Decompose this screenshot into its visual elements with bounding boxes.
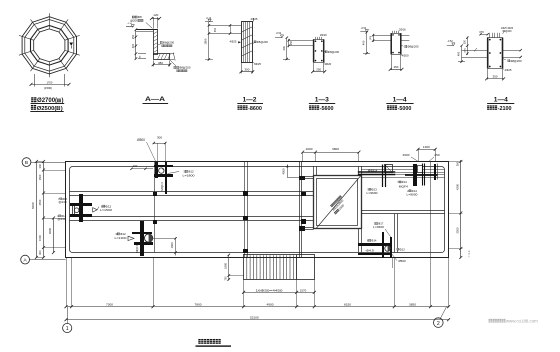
chamber outer square — [314, 176, 362, 229]
octagonal shaft detail: outer ring inner face — [25, 20, 74, 72]
section 1-3 column body — [314, 40, 324, 63]
svg-text:-0.10: -0.10 — [206, 18, 212, 20]
section 1-3 top stirrup ticks — [315, 37, 317, 40]
svg-text:2Φ16: 2Φ16 — [320, 33, 327, 37]
svg-text:Ø500: Ø500 — [137, 138, 145, 142]
svg-text:1—3: 1—3 — [315, 97, 330, 104]
K3 opening box on top wall — [385, 165, 393, 173]
svg-text:7800: 7800 — [195, 302, 202, 306]
section J-4 side tie lines — [462, 50, 488, 52]
right zone grid line — [430, 162, 432, 258]
octagonal shaft radial web lines — [19, 13, 80, 77]
section J-4 left elevation marker — [447, 45, 454, 47]
partition P3 double vertical chamber zone left wall — [299, 162, 301, 258]
svg-text:350: 350 — [493, 74, 498, 78]
svg-text:1—4: 1—4 — [494, 97, 509, 104]
svg-text:250: 250 — [434, 153, 439, 157]
thin beam lines to right wall — [361, 169, 445, 171]
partition P2 double vertical — [244, 162, 246, 258]
shaft section marker triangle — [70, 43, 74, 47]
axis circle B — [22, 158, 31, 167]
svg-text:-5000: -5000 — [398, 106, 412, 112]
section 1-4 left elevation marker — [360, 31, 367, 33]
svg-text:Φ14: Φ14 — [372, 169, 378, 173]
circular opening bottom right — [385, 246, 391, 252]
section 1-2 wall column body — [242, 22, 253, 63]
heavy beam segment under top-right bar cluster — [405, 174, 438, 176]
svg-text:6600: 6600 — [31, 202, 35, 209]
beam vertical bar bottom right left — [382, 232, 384, 258]
beam middle-left horizontal bars — [70, 203, 92, 206]
beam vertical bar bottom right right — [390, 237, 392, 258]
chamber inner square — [317, 179, 358, 226]
stairs bottom dim 16@280=4480 / 1570 — [243, 280, 245, 307]
top dimension 1300 — [418, 149, 435, 151]
beam bottom-channel horizontal bars — [132, 232, 152, 234]
beam heavy horizontal bar lower — [358, 253, 392, 255]
beam bar top right single — [434, 164, 436, 180]
junction square P2-wallA — [243, 191, 248, 196]
section J-4 left dim 400 — [461, 46, 463, 62]
svg-text:300: 300 — [455, 161, 459, 166]
stairs outline — [244, 255, 315, 280]
svg-text:300: 300 — [38, 250, 42, 255]
section 1-3 left dims — [289, 40, 314, 42]
svg-text:1000: 1000 — [306, 147, 313, 151]
svg-text:250: 250 — [131, 34, 135, 39]
section A-A top slab line — [136, 29, 158, 31]
svg-text:4Φ25: 4Φ25 — [251, 17, 258, 21]
junction square P3-wallA — [301, 192, 306, 196]
svg-text:Φ12: Φ12 — [399, 247, 405, 251]
svg-text:): ) — [61, 106, 63, 112]
svg-text:-0.52: -0.52 — [447, 40, 453, 43]
chamber link walls from P3 — [302, 176, 314, 178]
stairs landing divider — [296, 255, 298, 280]
svg-text:Φ8@200: Φ8@200 — [510, 59, 522, 63]
svg-text:L=1800: L=1800 — [183, 173, 195, 177]
svg-text:Φ8@200: Φ8@200 — [257, 40, 269, 44]
svg-text:A—A: A—A — [145, 96, 165, 103]
right dimension chain — [460, 160, 462, 258]
section 1-2 left tall dim 1800 — [208, 22, 210, 60]
svg-text:3800: 3800 — [332, 147, 339, 151]
svg-text:2Φ16: 2Φ16 — [399, 28, 406, 32]
svg-text:4300: 4300 — [455, 183, 459, 190]
svg-text:(: ( — [54, 106, 56, 112]
svg-text:3300: 3300 — [455, 227, 459, 234]
svg-text:Ø2500: Ø2500 — [37, 106, 55, 112]
section J-4 right note — [508, 60, 510, 62]
octagonal shaft detail: inner ring inner face — [34, 29, 65, 62]
section A-A footing break extension — [170, 53, 175, 55]
svg-text:200: 200 — [133, 164, 138, 168]
svg-text:@200: @200 — [130, 19, 138, 23]
chamber diagonal — [317, 176, 361, 228]
svg-text:400: 400 — [282, 46, 286, 51]
svg-text:Φ8@200: Φ8@200 — [503, 29, 512, 33]
svg-text:2: 2 — [437, 321, 440, 327]
svg-text:4Φ25: 4Φ25 — [505, 68, 512, 72]
svg-text:350: 350 — [214, 27, 217, 32]
section 1-2 right dim 400 — [286, 38, 288, 59]
shaft width dimension 1700 (1500) — [31, 84, 69, 86]
beam MQF4 horizontal bars — [154, 165, 173, 167]
wall row A upper interior wall — [70, 191, 314, 193]
left inner chain 4000 — [53, 218, 55, 253]
svg-text:= 3.3: = 3.3 — [467, 250, 471, 257]
svg-text:300: 300 — [157, 136, 162, 140]
note 3d12 L=1300 with arrow — [128, 236, 134, 240]
section A-A footing — [154, 54, 170, 60]
chamber connector stub walls to top wall — [313, 166, 315, 175]
beam MQF4 right vertical bar — [165, 162, 167, 194]
section 1-4 left dim 400 — [366, 32, 368, 53]
svg-text:52100: 52100 — [250, 316, 259, 320]
left chain connector ticks — [44, 170, 67, 172]
svg-text:400: 400 — [362, 40, 366, 45]
watermark text — [489, 319, 493, 323]
svg-text:-2100: -2100 — [498, 106, 512, 112]
svg-text:1800: 1800 — [204, 38, 208, 44]
svg-text:(1500): (1500) — [44, 86, 52, 90]
svg-text:380: 380 — [158, 61, 163, 65]
junction square P2-bottom — [243, 249, 248, 253]
section A-A top-left leader note — [132, 16, 135, 18]
section A-A bottom dim 380 — [153, 61, 155, 67]
svg-text:350: 350 — [463, 39, 466, 44]
svg-text:Φ8: Φ8 — [138, 15, 142, 19]
axis circle 1 — [63, 323, 72, 332]
svg-text:400: 400 — [131, 43, 135, 48]
chamber rotated label text — [330, 195, 342, 207]
bottom chain extension lines — [71, 258, 73, 307]
junction square P1-wallB — [153, 220, 157, 224]
octagon caption line 2 — [31, 105, 36, 110]
svg-text:120: 120 — [153, 13, 158, 17]
svg-text:1500: 1500 — [170, 242, 174, 248]
left middle chain — [43, 162, 45, 258]
bottom dimension chain — [66, 306, 449, 308]
bottom total dimension 52100 — [66, 319, 449, 321]
svg-text:4Φ25: 4Φ25 — [230, 39, 237, 43]
right chain connector ticks — [449, 161, 463, 163]
svg-text:250: 250 — [316, 67, 321, 71]
svg-text:Φ8@200: Φ8@200 — [407, 45, 419, 49]
beam solid bar top right — [413, 164, 417, 186]
svg-text:Φ8@200: Φ8@200 — [328, 50, 340, 54]
svg-text:4000: 4000 — [48, 228, 52, 234]
section 1-2 bottom dim 300 — [241, 63, 243, 73]
svg-text:Φ14: Φ14 — [371, 239, 377, 243]
section 1-3 bottom dim 250 — [313, 63, 315, 71]
svg-text:4500: 4500 — [403, 153, 410, 157]
note 2d12 right of circle — [397, 248, 399, 250]
octagonal shaft detail: inner ring outer face — [31, 26, 69, 66]
reference line with rotated 4500 — [287, 165, 289, 178]
plan outer wall rectangle — [66, 162, 449, 258]
octagonal shaft detail: outer decagon wall — [22, 17, 76, 74]
svg-text:370: 370 — [479, 30, 484, 34]
svg-text:-0.52: -0.52 — [361, 27, 367, 30]
section J-4 bottom dim 350 — [487, 69, 489, 80]
stairs rungs — [247, 255, 297, 279]
leader arrow for 8d12 note — [93, 208, 98, 212]
svg-text:16Φ50=4450: 16Φ50=4450 — [256, 288, 284, 292]
right zone middle wall — [361, 210, 445, 212]
axis circle 2 — [434, 318, 444, 328]
octagon caption line 1 — [31, 97, 36, 102]
section 1-3 right leader — [325, 51, 327, 53]
section 1-2 right leader d8@200 — [254, 41, 256, 43]
top dimension line 1000 / 3800 — [303, 152, 359, 154]
axis circle A — [21, 255, 30, 264]
beam double bar top right — [422, 164, 424, 186]
section J-4 column body — [488, 38, 503, 69]
section J-4 top stirrup ticks — [489, 33, 491, 38]
svg-text:1500: 1500 — [38, 174, 42, 180]
section A-A top dim 120 — [153, 17, 155, 29]
svg-text:1570: 1570 — [300, 288, 307, 292]
section J-4 left dim chain — [467, 37, 469, 56]
anchor plate box on top right bars — [418, 166, 423, 173]
section A-A bottom-right leader note — [170, 60, 176, 66]
svg-text:300: 300 — [244, 68, 249, 72]
svg-text:Φ8@200: Φ8@200 — [179, 66, 191, 70]
section 1-2 right elevation marker -0.52 — [275, 37, 282, 39]
svg-text:Φ14: Φ14 — [402, 180, 408, 184]
beam middle-left circular opening — [74, 208, 79, 213]
svg-text:-Φ4.9: -Φ4.9 — [365, 248, 375, 252]
svg-text:250: 250 — [394, 65, 399, 69]
beam vertical pair near chamber right — [382, 165, 384, 188]
drawing title — [198, 339, 203, 344]
shaft dimension extension lines — [34, 74, 36, 87]
svg-text:L=1500: L=1500 — [100, 208, 112, 212]
svg-text:MQF4: MQF4 — [399, 185, 409, 189]
svg-text:MQF1: MQF1 — [135, 245, 139, 253]
beam middle-left second vertical bar — [72, 203, 74, 217]
section A-A small left ticks — [138, 53, 146, 55]
svg-text:www.co188.com: www.co188.com — [506, 319, 538, 324]
svg-text:-8600: -8600 — [248, 106, 262, 112]
left outer chain total 6600 — [36, 162, 38, 258]
svg-text:L=9000: L=9000 — [407, 193, 419, 197]
beam MQF4 circular opening d500 — [159, 168, 164, 173]
svg-text:7300: 7300 — [106, 302, 113, 306]
wall row B lower interior wall — [70, 216, 314, 218]
junction square P3-chamber-bottom row — [299, 226, 305, 231]
beam bottom-channel circular opening — [145, 234, 153, 242]
svg-text:4Φ25: 4Φ25 — [254, 62, 261, 66]
junction square P3-wallB — [301, 219, 306, 224]
svg-text:L=9600: L=9600 — [367, 191, 379, 195]
junction square P2-wallB — [243, 216, 248, 220]
plan inner wall rectangle — [70, 167, 445, 253]
svg-text:L=1300: L=1300 — [115, 236, 127, 240]
svg-text:1—4: 1—4 — [393, 97, 408, 104]
svg-text:L=4500: L=4500 — [373, 225, 385, 229]
svg-text:1800: 1800 — [223, 263, 227, 269]
svg-text:MQF4: MQF4 — [160, 182, 164, 191]
dim 1500 for opening position — [153, 238, 176, 240]
svg-text:1—2: 1—2 — [243, 97, 258, 104]
svg-text:4900: 4900 — [267, 302, 274, 306]
svg-text:8150: 8150 — [344, 302, 351, 306]
svg-text:@240: @240 — [58, 217, 67, 221]
svg-text:-5600: -5600 — [320, 106, 334, 112]
svg-text:(50): (50) — [370, 36, 372, 40]
svg-text:300: 300 — [38, 163, 42, 168]
svg-text:4Φ20: 4Φ20 — [324, 62, 331, 66]
beam middle-left vertical bar — [79, 194, 83, 222]
svg-text:1700: 1700 — [47, 80, 53, 84]
extension below beam cluster — [392, 258, 394, 269]
svg-text:750: 750 — [224, 276, 227, 281]
section 1-4 bottom dim 250 — [391, 55, 393, 70]
svg-text:@240: @240 — [59, 200, 68, 204]
svg-text:1500: 1500 — [38, 235, 42, 241]
beam heavy pair top of chamber zone — [358, 171, 396, 173]
svg-text:400: 400 — [457, 51, 461, 56]
beam heavy horizontal bar upper — [358, 243, 392, 246]
svg-text:1300: 1300 — [423, 145, 430, 149]
section 1-4 column body — [392, 34, 401, 55]
svg-text:2550: 2550 — [38, 199, 42, 205]
partition P1 vertical line — [154, 162, 156, 253]
junction square P3-chamber-top row — [299, 176, 305, 180]
svg-text:-1.10: -1.10 — [127, 23, 133, 25]
svg-text:Φ8@200: Φ8@200 — [163, 41, 175, 45]
beam MQF4 leader note 3d12 L=1800 — [168, 172, 180, 174]
svg-text:250: 250 — [290, 40, 293, 45]
section 1-4 right ties and note — [401, 35, 410, 37]
section A-A elevation marker — [126, 26, 133, 28]
svg-text:1: 1 — [66, 326, 69, 332]
junction square P1-wallA — [153, 192, 157, 196]
svg-text:Ø500: Ø500 — [398, 259, 406, 263]
section 1-4 left ties — [373, 35, 391, 37]
svg-text:4500: 4500 — [282, 168, 286, 174]
svg-text:B: B — [25, 160, 28, 166]
section A-A left dim chain — [135, 30, 137, 59]
beam bottom-channel vertical bar — [140, 221, 144, 256]
section 1-2 top-left elevation marker — [205, 21, 213, 23]
svg-text:4Φ20: 4Φ20 — [402, 53, 409, 57]
section A-A right wall note — [160, 41, 162, 43]
right zone dividing vertical wall — [394, 214, 396, 253]
section 1-2 left upper dims — [209, 25, 241, 27]
svg-text:-0.52: -0.52 — [276, 32, 282, 35]
beam MQF4 left vertical bar — [155, 162, 158, 178]
stairs left dim 1800/750 — [228, 255, 230, 280]
section A-A wall hatched — [154, 30, 158, 55]
svg-text:3850: 3850 — [409, 302, 416, 306]
wall below chamber right edge — [358, 229, 360, 253]
